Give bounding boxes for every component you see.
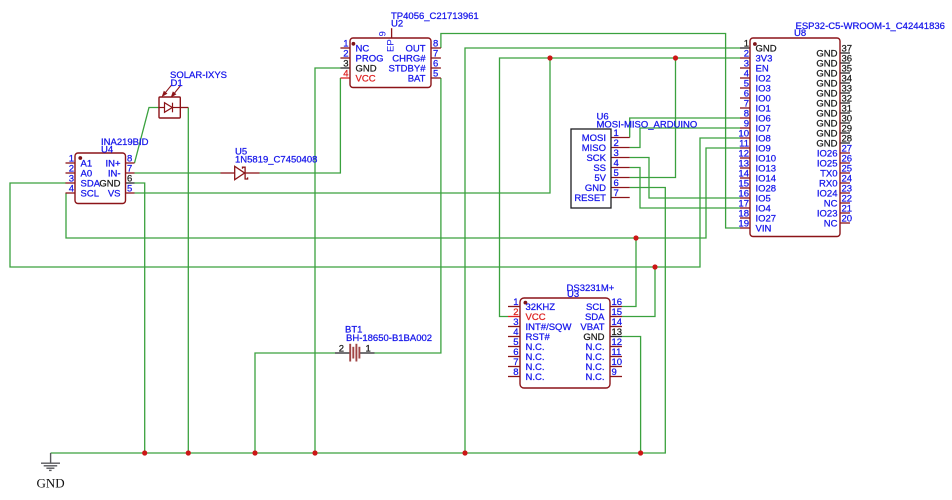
svg-text:5: 5 bbox=[433, 69, 438, 80]
svg-text:BH-18650-B1BA002: BH-18650-B1BA002 bbox=[346, 333, 432, 344]
svg-text:5: 5 bbox=[127, 184, 132, 195]
svg-text:U3: U3 bbox=[567, 289, 579, 300]
svg-text:NC: NC bbox=[824, 219, 838, 230]
svg-text:D1: D1 bbox=[171, 78, 183, 89]
svg-text:9: 9 bbox=[612, 367, 617, 378]
svg-text:VS: VS bbox=[108, 189, 121, 200]
svg-text:GND: GND bbox=[37, 476, 65, 491]
svg-text:U8: U8 bbox=[794, 28, 806, 39]
svg-text:EP: EP bbox=[386, 39, 397, 52]
svg-text:N.C.: N.C. bbox=[586, 372, 605, 383]
svg-text:BAT: BAT bbox=[408, 74, 426, 85]
svg-text:1N5819_C7450408: 1N5819_C7450408 bbox=[235, 154, 317, 165]
svg-text:SCL: SCL bbox=[81, 189, 99, 200]
svg-text:8: 8 bbox=[513, 367, 518, 378]
svg-text:U4: U4 bbox=[101, 145, 113, 156]
svg-text:4: 4 bbox=[69, 184, 74, 195]
svg-text:9: 9 bbox=[378, 31, 389, 36]
svg-text:19: 19 bbox=[738, 219, 749, 230]
svg-text:7: 7 bbox=[614, 188, 619, 199]
svg-text:RESET: RESET bbox=[574, 193, 606, 204]
svg-text:2: 2 bbox=[339, 344, 344, 355]
svg-text:TP4056_C21713961: TP4056_C21713961 bbox=[391, 11, 479, 22]
svg-text:MOSI-MISO_ARDUINO: MOSI-MISO_ARDUINO bbox=[597, 120, 698, 131]
svg-text:VIN: VIN bbox=[756, 224, 772, 235]
svg-text:VCC: VCC bbox=[356, 74, 376, 85]
svg-text:1: 1 bbox=[366, 344, 371, 355]
svg-text:20: 20 bbox=[842, 214, 853, 225]
svg-text:N.C.: N.C. bbox=[526, 372, 545, 383]
svg-text:ESP32-C5-WROOM-1_C42441836: ESP32-C5-WROOM-1_C42441836 bbox=[796, 21, 945, 32]
svg-text:4: 4 bbox=[343, 69, 348, 80]
svg-text:U2: U2 bbox=[391, 19, 403, 30]
